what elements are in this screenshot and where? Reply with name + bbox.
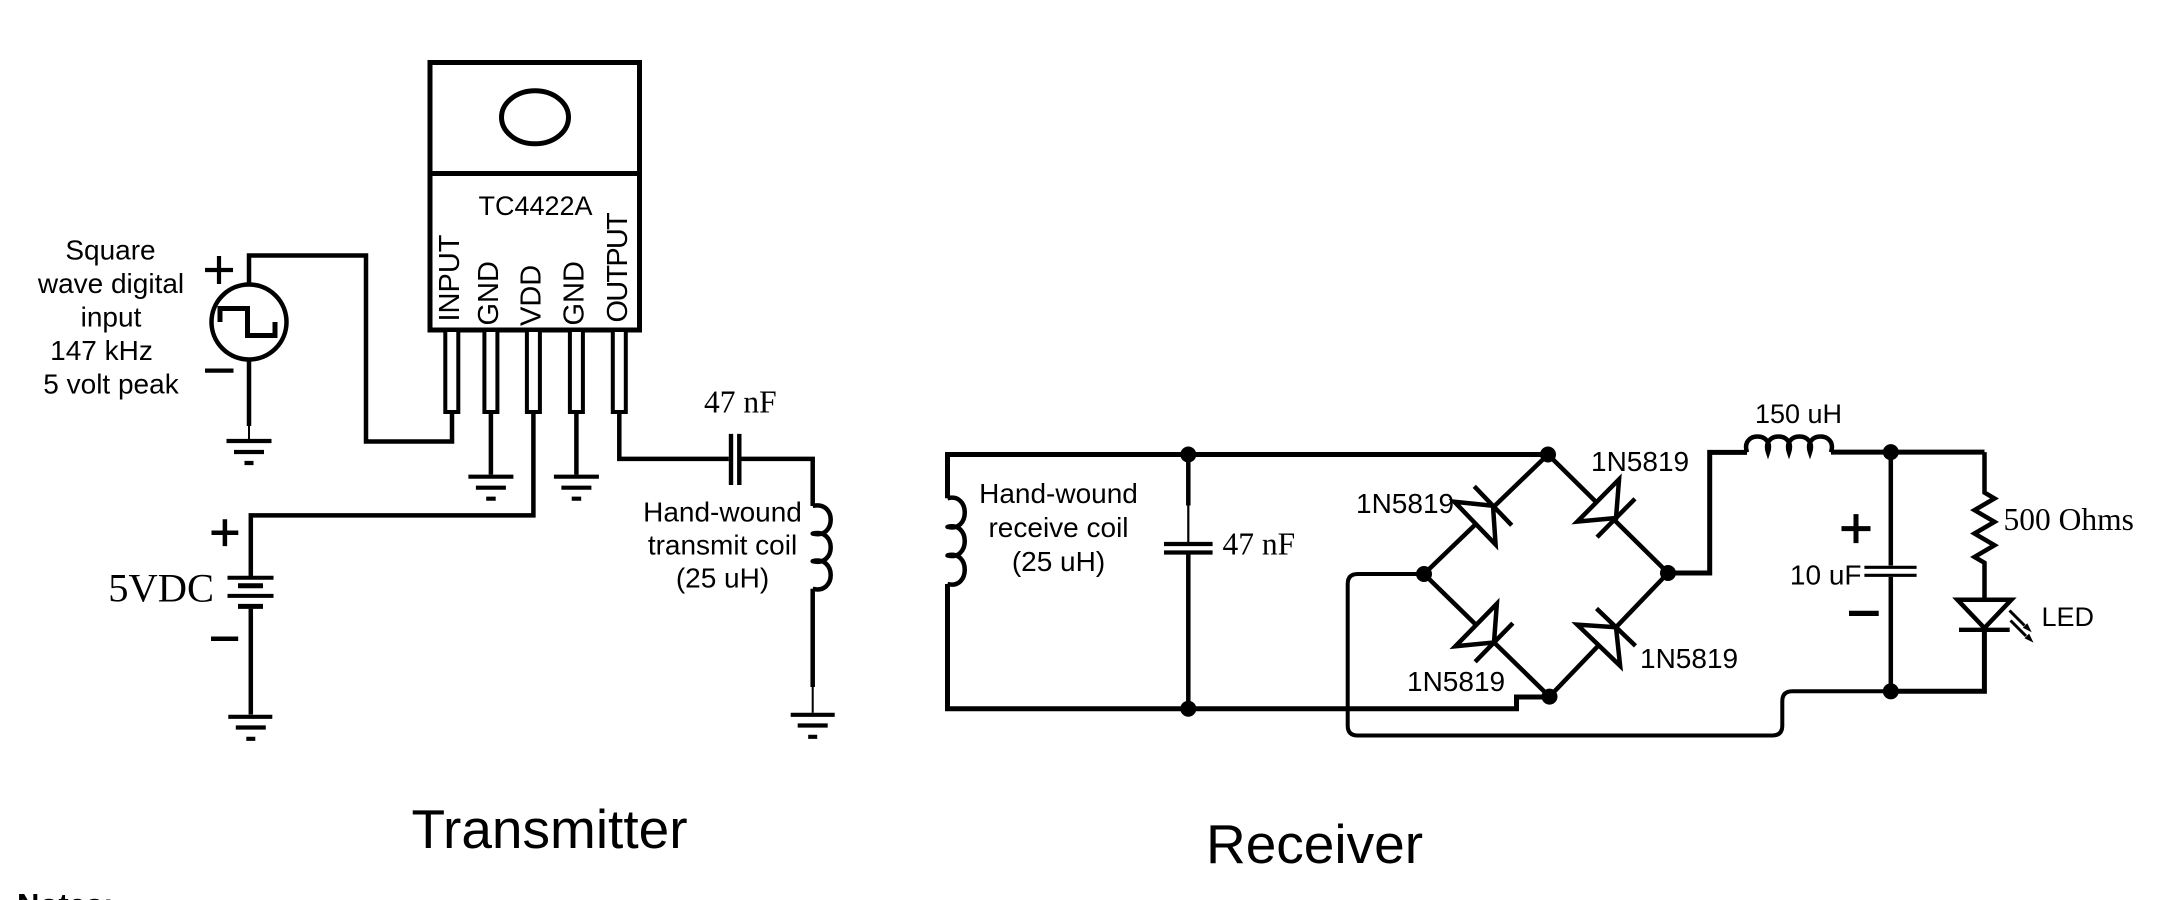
inductor L2 receive coil: [948, 498, 965, 585]
wire bridge left vertex to output ground rail: [1348, 574, 1891, 736]
bridge edge bottom-right: [1550, 573, 1669, 697]
svg-text:VDD: VDD: [515, 265, 547, 326]
svg-text:1N5819: 1N5819: [1640, 643, 1738, 674]
battery B1 plates: [228, 578, 274, 596]
wire C2 bottom: [1186, 555, 1191, 709]
wire L3 to resistor R1: [1831, 450, 1985, 455]
svg-text:47 nF: 47 nF: [1223, 527, 1296, 562]
diode D3 1N5819 bottom-left: [1455, 604, 1514, 664]
square wave glyph inside V1: [220, 309, 275, 336]
svg-text:INPUT: INPUT: [434, 234, 466, 321]
capacitor C3 10 uF plates: [1864, 567, 1916, 575]
bridge edge top-right: [1548, 455, 1668, 574]
node dot bridge left vertex: [1416, 566, 1432, 582]
bridge edge bottom-left: [1424, 574, 1550, 697]
svg-text:GND: GND: [558, 261, 590, 325]
wire C1 to transmit coil L1: [742, 459, 813, 506]
bridge edge top-left: [1424, 455, 1548, 575]
pin 5 OUTPUT: [613, 330, 626, 412]
svg-text:input: input: [81, 302, 142, 333]
ground at V1: [227, 441, 272, 463]
plus sign at V1: [205, 256, 233, 284]
resistor R1 500 Ohms: [1975, 452, 1995, 600]
wire C2 top: [1186, 455, 1191, 506]
svg-text:500 Ohms: 500 Ohms: [2004, 502, 2134, 537]
ground at battery: [228, 717, 272, 739]
svg-text:Square: Square: [65, 235, 155, 266]
LED light arrow 2: [2011, 621, 2034, 643]
IC U1 tab: [430, 63, 640, 174]
svg-text:receive coil: receive coil: [988, 512, 1128, 543]
IC U1 mounting hole: [502, 91, 569, 144]
svg-text:OUTPUT: OUTPUT: [602, 212, 634, 323]
wire pin3 VDD to battery plus: [251, 412, 534, 576]
LED D5 cathode bar: [1959, 628, 2010, 632]
svg-text:wave digital: wave digital: [37, 268, 184, 299]
plus sign at C3: [1842, 514, 1871, 543]
plus sign at battery: [212, 519, 239, 546]
svg-text:1N5819: 1N5819: [1591, 446, 1689, 477]
wire receiver bottom rail with jog: [948, 584, 1549, 709]
pin 3 VDD: [527, 330, 540, 412]
svg-text:150 uH: 150 uH: [1755, 399, 1842, 429]
capacitor C2 47 nF plates: [1164, 544, 1213, 553]
ground at pin 4: [554, 477, 599, 499]
svg-text:Hand-wound: Hand-wound: [979, 478, 1138, 509]
wire bridge right vertex to inductor L3: [1668, 452, 1747, 573]
pin 2 GND: [484, 330, 497, 412]
diode D4 1N5819 bottom-right: [1577, 607, 1637, 666]
ground at pin 2: [468, 477, 513, 499]
square wave source V1 circle: [212, 285, 287, 360]
pin 1 INPUT: [445, 330, 458, 412]
svg-text:Receiver: Receiver: [1206, 813, 1423, 875]
svg-text:Transmitter: Transmitter: [411, 798, 687, 860]
svg-text:1N5819: 1N5819: [1407, 666, 1505, 697]
node dot top of C2: [1180, 447, 1196, 463]
svg-text:(25 uH): (25 uH): [676, 563, 769, 594]
wire V1 top to IC INPUT pin: [249, 256, 452, 442]
wire C3 top: [1889, 452, 1894, 565]
pin 4 GND: [570, 330, 583, 412]
diode D2 1N5819 top-right: [1577, 479, 1637, 539]
svg-text:transmit coil: transmit coil: [648, 530, 797, 561]
inductor L1 transmit coil: [813, 505, 831, 589]
wire C3 bottom: [1889, 577, 1894, 691]
diode D1 1N5819 top-left: [1454, 484, 1513, 544]
svg-text:(25 uH): (25 uH): [1012, 546, 1105, 577]
svg-text:10 uF: 10 uF: [1790, 560, 1862, 591]
wire L1 to ground: [810, 589, 815, 687]
ground lead L1: [812, 687, 814, 713]
node dot bridge bottom vertex: [1542, 689, 1558, 705]
minus sign at V1: [205, 369, 234, 373]
svg-text:147 kHz: 147 kHz: [50, 335, 153, 366]
svg-text:1N5819: 1N5819: [1356, 488, 1454, 519]
minus sign at battery: [211, 637, 238, 642]
node dot bottom of C2: [1180, 701, 1196, 717]
LED D5 triangle: [1957, 600, 2011, 628]
wire LED bottom to C3 bottom: [1891, 630, 1985, 691]
wire pin4 to ground: [574, 412, 579, 475]
IC U1 body: [430, 174, 640, 331]
svg-text:5VDC: 5VDC: [108, 566, 214, 611]
svg-text:LED: LED: [2042, 602, 2095, 632]
wire pin2 to ground: [489, 412, 494, 475]
wire receiver top rail: [948, 455, 1549, 499]
inductor L3 150 uH: [1746, 437, 1832, 453]
capacitor C1 47 nF plates: [731, 434, 739, 485]
svg-text:47 nF: 47 nF: [704, 385, 777, 420]
node dot bridge top vertex: [1540, 447, 1556, 463]
wire battery minus to ground: [249, 609, 254, 715]
ground lead V1: [248, 426, 250, 440]
wire V1 bottom to ground: [247, 360, 252, 427]
node dot L3 C3 junction: [1883, 444, 1899, 460]
minus sign at C3: [1849, 611, 1879, 616]
svg-text:GND: GND: [473, 261, 505, 325]
svg-text:Hand-wound: Hand-wound: [643, 497, 802, 528]
ground at L1: [791, 715, 835, 737]
LED light arrow 1: [2010, 611, 2032, 633]
svg-text:Notes:: Notes:: [17, 887, 113, 900]
svg-text:TC4422A: TC4422A: [478, 191, 592, 221]
wire pin5 OUTPUT to capacitor C1: [619, 412, 729, 459]
svg-text:5 volt peak: 5 volt peak: [43, 369, 179, 400]
node dot bridge right vertex: [1660, 565, 1676, 581]
node dot C3 bottom junction: [1883, 683, 1899, 699]
